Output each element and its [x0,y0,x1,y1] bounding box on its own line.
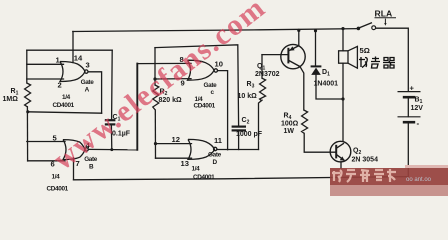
wire pin13 input [156,157,192,159]
svg-text:3: 3 [86,61,90,70]
svg-text:CD4001: CD4001 [47,185,69,192]
wire Q1 emitter to rail [298,31,300,45]
svg-text:10 kΩ: 10 kΩ [238,93,258,100]
wire D1 top lead [315,31,317,66]
wire top supply rail [73,29,358,32]
wire vertical x112 (C1 branch from y50 to gate B output) [111,50,114,119]
diode D1 1N4001 [311,65,322,67]
wire speaker bottom / Q2 collector [342,63,344,141]
wire Q2 emitter to rail [340,162,342,177]
wire pin7 ground stub [73,158,75,180]
op-amp gate A (NOR 1/4 CD4001) [60,62,88,82]
wire switch to battery corner [376,28,409,91]
wire pin1 input [27,63,64,65]
junction speaker lead on supply rail [341,27,344,30]
wire Q1 base [262,54,288,56]
svg-text:13: 13 [181,159,189,168]
junction D1 cathode / Q2 collector node [341,97,344,100]
svg-text:+: + [410,84,415,93]
svg-text:RLA: RLA [375,9,393,19]
watermark band bottom right [330,168,448,185]
svg-text:Gate: Gate [208,151,222,158]
speaker impedance label [360,46,370,55]
pin number labels gate B [51,134,91,169]
svg-text:A: A [85,87,90,94]
svg-text:10: 10 [215,59,223,68]
transistor Q1 2N3702 [281,44,305,68]
svg-text:1/4: 1/4 [62,94,71,101]
resistor R2 value label [159,88,183,104]
speaker 5R [339,51,348,63]
wire gate A output [88,72,101,113]
svg-text:12V: 12V [411,105,424,112]
junction C1 bottom at gate B output [110,148,113,151]
resistor R3 [260,78,266,100]
junction D1 anode on supply rail [314,29,317,32]
wire feedback R1 bottom [28,112,102,113]
junction R2 bottom / pin 12 node [154,142,157,145]
wire Q1 collector to R4 [300,67,304,111]
transistor Q2 2N3054 [330,141,351,162]
transistor Q2 type label [352,148,379,164]
capacitor C1 [105,120,116,124]
svg-text:B: B [89,163,94,170]
gate B label [47,156,98,192]
resistor R2 [153,85,159,110]
pin number labels gate D [172,135,223,168]
relay contact RLA [357,27,361,31]
wire speaker top lead [342,29,344,51]
battery polarity and value labels [410,84,424,128]
wire R4 bottom to Q2 base [304,133,336,152]
capacitor C2 value label [236,117,263,138]
wire D1 bottom lead [316,75,343,99]
wire R2 column bottom [154,110,156,158]
svg-text:2: 2 [58,81,62,90]
svg-text:1/4: 1/4 [52,173,61,180]
pin number labels gate C [180,55,223,88]
wire battery middle segment [407,97,409,116]
wire gate C output down [218,71,228,150]
op-amp gate B (NOR 1/4 CD4001) [63,140,88,160]
pin number labels gate A [56,54,90,90]
svg-text:14: 14 [74,54,83,63]
svg-text:5Ω: 5Ω [360,46,370,55]
wire pin14 supply stub [72,32,74,63]
svg-text:Gate: Gate [81,79,95,86]
svg-text:1N4001: 1N4001 [314,81,339,88]
resistor R4 value label [281,113,299,135]
svg-text:100Ω: 100Ω [281,120,299,127]
op-amp gate C (NOR 1/4 CD4001) [188,60,218,80]
relay label RLA [375,9,393,19]
gate A label [53,79,95,109]
wire battery bottom to rail [407,122,409,176]
svg-text:1000 pF: 1000 pF [236,131,263,138]
watermark chinese glyphs [332,169,396,182]
resistor R3 value label [238,81,258,100]
wire pin12 input [156,143,192,145]
wire bottom ground rail [74,177,408,180]
svg-text:12: 12 [172,135,180,144]
diode D1 type label [314,69,339,88]
gate D label [192,151,222,181]
svg-text:1W: 1W [284,128,295,135]
svg-text:-: - [417,119,420,128]
wire C2 bottom lead [238,132,240,150]
svg-text:CD4001: CD4001 [193,174,215,181]
wire gate A input top loop y50 [27,49,112,51]
wire pin5 input [27,141,65,143]
svg-text:CD4001: CD4001 [194,102,216,109]
svg-text:2N3702: 2N3702 [255,71,280,78]
wire y47 link R2 node to C2 [155,45,239,126]
wire pin8 input [137,62,191,64]
svg-text:CD4001: CD4001 [53,102,75,109]
speaker chinese label (drawn strokes) [359,57,395,69]
resistor R4 [302,110,308,133]
op-amp gate D (NOR 1/4 CD4001) [188,139,217,159]
svg-text:2N 3054: 2N 3054 [352,156,379,163]
svg-text:1MΩ: 1MΩ [3,96,19,103]
wire left vertical with R1 column [26,50,28,83]
svg-text:1/4: 1/4 [192,166,201,173]
wire pin6 input [28,160,65,162]
junction Q1 emitter on supply rail [297,29,300,32]
junction R1 bottom feedback node [26,110,29,113]
wire gate D output node [217,149,259,151]
capacitor C1 value label [112,114,131,137]
svg-text:11: 11 [214,136,223,145]
gate C label [194,82,218,109]
capacitor C2 [232,127,246,131]
svg-text:oo ant.oo: oo ant.oo [406,177,432,183]
wire R2 column top [154,48,156,85]
junction pin 9 / R2 top node [153,77,156,80]
transistor Q1 type label [255,63,280,78]
wire pin9 input [155,78,191,80]
wire R3 column [261,55,263,79]
resistor R1 [25,83,31,107]
wire vertical x137 up to pin8 [136,64,138,150]
wire pin2 input [27,78,64,80]
svg-text:D: D [213,159,218,166]
wire gate B output to x137 [88,148,137,150]
battery B1 [398,92,421,123]
resistor R1 value label [3,88,19,103]
